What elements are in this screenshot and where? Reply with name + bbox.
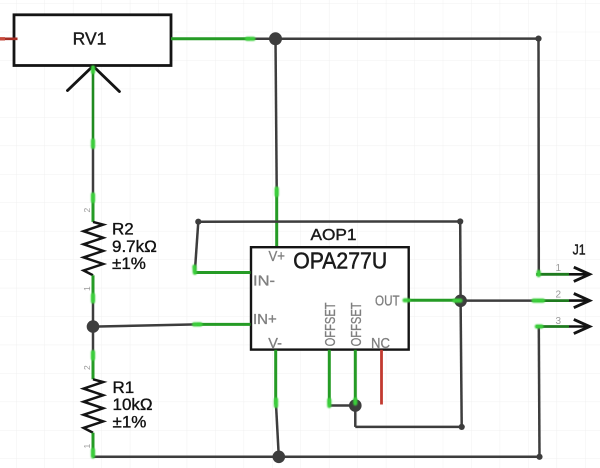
cap wire end at V- <box>274 400 278 407</box>
connector J1 <box>536 242 589 333</box>
cap wire end at OUT node <box>455 299 461 303</box>
wire OUT node down <box>461 301 462 427</box>
bendpoint feedback left <box>195 219 201 225</box>
svg-text:±1%: ±1% <box>113 412 147 431</box>
cap wire end at OFFSET left <box>327 400 331 406</box>
feedback wire right vertical down to OUT node <box>459 222 462 301</box>
node D junction dot <box>349 399 362 412</box>
wire node D to OFFSET left <box>329 404 355 407</box>
svg-text:AOP1: AOP1 <box>311 227 357 244</box>
svg-text:1: 1 <box>555 263 561 274</box>
svg-text:R2: R2 <box>112 220 134 239</box>
bendpoint top-right corner <box>535 36 541 42</box>
svg-text:NC: NC <box>371 336 390 352</box>
op-amp pin IN+ <box>197 323 251 326</box>
RV1 pin 3 (right, green connected) <box>171 37 250 40</box>
svg-text:OFFSET: OFFSET <box>349 302 365 346</box>
cap wire end at J1 pin 3 <box>537 324 542 328</box>
potentiometer RV1 body <box>14 15 171 66</box>
wire offset loop horizontal <box>355 426 461 429</box>
R1 pin 2 (top) <box>92 352 95 379</box>
op-amp pin OFFSET (right) <box>354 350 357 405</box>
cap at wiper pin apex <box>91 68 95 73</box>
R2 pin 2 (top) <box>92 194 95 222</box>
wire node B down to V+ <box>276 39 277 190</box>
bendpoint feedback right <box>457 218 463 224</box>
wire node A to IN+ <box>93 324 197 326</box>
feedback wire top horizontal <box>198 220 460 223</box>
cap at OFFSET right pin end <box>353 400 357 404</box>
svg-text:R1: R1 <box>113 378 135 397</box>
svg-text:2: 2 <box>555 290 561 301</box>
svg-text:1: 1 <box>82 444 92 449</box>
svg-text:RV1: RV1 <box>73 28 107 48</box>
svg-text:10kΩ: 10kΩ <box>113 395 153 414</box>
RV1 pin 2 wiper (green connected) <box>92 66 95 143</box>
svg-text:V-: V- <box>268 336 282 352</box>
svg-text:1: 1 <box>82 286 92 291</box>
op-amp AOP1 OPA277U body <box>251 227 409 350</box>
wire node A to R1 <box>92 327 95 353</box>
J1 pin 2 line <box>536 299 569 302</box>
wire OUT node to J1 pin 2 <box>461 299 536 302</box>
J1 pin 1 line <box>536 273 569 276</box>
cap wire end at V+ <box>275 189 279 196</box>
bendpoint bottom-right corner <box>536 454 542 460</box>
svg-text:OPA277U: OPA277U <box>293 248 387 274</box>
R2 pin 1 (bottom) <box>92 275 95 301</box>
svg-text:IN+: IN+ <box>253 312 277 328</box>
cap wire end at R2 pin1 <box>91 295 95 302</box>
cap at OUT pin box edge <box>405 298 409 302</box>
wire offset loop up to node D <box>354 406 357 427</box>
wire top-right corner down to J1 pin 1 <box>537 39 540 275</box>
svg-text:3: 3 <box>555 316 561 327</box>
bottom rail wire R1 to J1 pin 3 <box>93 456 540 459</box>
J1 pin 3 line <box>536 325 569 328</box>
node E junction dot on bottom rail <box>273 451 286 464</box>
wire RV1 right to top-right corner <box>250 37 539 40</box>
svg-text:J1: J1 <box>573 242 586 258</box>
cap RV1 right pin end <box>247 37 254 41</box>
node B junction dot <box>269 32 282 45</box>
node C (OUT) junction dot <box>454 295 467 308</box>
J1 pin 2 arrowhead <box>574 294 590 308</box>
red unconnected end cap on NC pin <box>380 401 384 405</box>
cap wire end at IN- <box>192 267 197 273</box>
RV1 wiper arrow <box>68 66 120 92</box>
R2 zigzag body <box>84 222 104 275</box>
op-amp pin OUT <box>409 299 460 302</box>
op-amp pin V- <box>274 350 277 405</box>
R1 zigzag body <box>84 379 104 432</box>
svg-text:2: 2 <box>82 208 92 213</box>
J1 pin 3 arrowhead <box>574 319 590 333</box>
svg-text:±1%: ±1% <box>112 254 146 273</box>
cap wire end at J1 pin 1 <box>537 272 541 275</box>
wire R2 to node A <box>92 301 95 327</box>
cap wire end at IN+ <box>194 322 201 326</box>
op-amp pin IN- <box>194 271 250 274</box>
svg-text:IN-: IN- <box>253 274 275 290</box>
feedback wire from IN- up <box>195 222 199 273</box>
cap wire end at R2 pin2 <box>91 194 95 201</box>
cap wiper wire top end <box>91 141 95 148</box>
cap wire end at R1 pin1 <box>91 450 95 457</box>
svg-text:2: 2 <box>82 365 92 370</box>
cap wire end at R1 pin2 <box>91 352 95 359</box>
wire V- down to bottom rail <box>276 405 279 457</box>
svg-text:OUT: OUT <box>375 294 400 310</box>
connected wire-end caps (bright green) <box>93 39 543 457</box>
resistor R2 <box>82 194 157 301</box>
node A junction dot <box>87 320 100 333</box>
wire bottom-right corner up to J1 pin 3 <box>538 327 541 457</box>
red unconnected end cap on left wire <box>0 37 5 40</box>
R1 pin 1 (bottom) <box>92 433 95 457</box>
svg-text:V+: V+ <box>268 249 285 265</box>
resistor R1 <box>82 352 153 456</box>
op-amp pin NC (red, unconnected) <box>380 350 383 405</box>
svg-text:OFFSET: OFFSET <box>323 302 339 346</box>
op-amp pin V+ <box>275 189 278 246</box>
cap wire end at J1 pin 2 <box>534 299 544 303</box>
wire wiper to R2 <box>92 143 95 197</box>
op-amp pin OFFSET (left) <box>328 350 331 405</box>
RV1 pin 1 (red, unconnected) <box>0 37 18 40</box>
svg-text:9.7kΩ: 9.7kΩ <box>112 237 157 256</box>
bendpoint lower right of offset loop <box>459 424 465 430</box>
J1 pin 1 arrowhead <box>574 267 590 281</box>
